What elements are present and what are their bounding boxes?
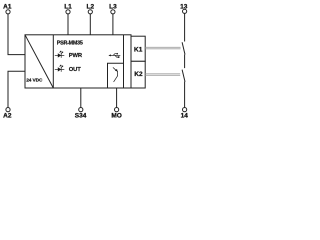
- wire A2 from module: [8, 71, 25, 107]
- terminal MO: [115, 108, 119, 112]
- svg-text:13: 13: [180, 4, 188, 11]
- svg-text:S34: S34: [75, 113, 87, 120]
- terminal A1: [6, 10, 10, 14]
- svg-text:24 VDC: 24 VDC: [26, 78, 43, 84]
- wire S34: [80, 88, 82, 108]
- svg-text:K2: K2: [134, 71, 143, 78]
- wire L2: [89, 14, 91, 35]
- wire 14 from contact: [184, 82, 186, 108]
- svg-text:PSR-MM35: PSR-MM35: [57, 40, 83, 46]
- terminal A2: [6, 108, 10, 112]
- terminal L3: [111, 10, 115, 14]
- relay K2 box: [131, 61, 145, 88]
- svg-text:K1: K1: [134, 46, 143, 53]
- svg-text:L2: L2: [87, 4, 95, 11]
- terminal L2: [88, 10, 92, 14]
- svg-text:L1: L1: [64, 4, 72, 11]
- contact 13-14 blade 1: [182, 42, 185, 54]
- module outline: [25, 35, 131, 88]
- terminal S34: [79, 108, 83, 112]
- svg-text:PWR: PWR: [69, 53, 83, 59]
- mechanical link K2 to contact: [145, 74, 180, 76]
- contact blade 2: [182, 70, 185, 82]
- USB connector icon: [109, 53, 121, 58]
- wire L3: [112, 14, 114, 35]
- wire MO: [116, 88, 118, 108]
- forcibly guided contact icon: [113, 67, 118, 82]
- svg-text:OUT: OUT: [69, 67, 81, 73]
- svg-text:14: 14: [181, 113, 189, 120]
- LED OUT symbol: [55, 65, 65, 72]
- relay K1 box: [131, 36, 145, 61]
- svg-text:A2: A2: [3, 113, 12, 120]
- LED PWR symbol: [55, 51, 65, 58]
- power supply box 24 VDC: [52, 35, 54, 88]
- wire L1: [67, 14, 69, 35]
- mechanical link K1 to contact: [145, 47, 180, 49]
- svg-text:A1: A1: [3, 4, 12, 11]
- wire A1 to module: [8, 14, 25, 55]
- terminal 14: [183, 108, 187, 112]
- svg-text:MO: MO: [111, 113, 121, 120]
- svg-text:L3: L3: [109, 4, 117, 11]
- wire 13 to contact: [184, 13, 186, 41]
- power supply diagonal: [25, 35, 53, 88]
- terminal 13: [183, 9, 187, 13]
- K2 icon box: [108, 63, 124, 88]
- wire between contacts: [184, 55, 186, 69]
- terminal L1: [66, 10, 70, 14]
- divider line right column: [123, 35, 125, 88]
